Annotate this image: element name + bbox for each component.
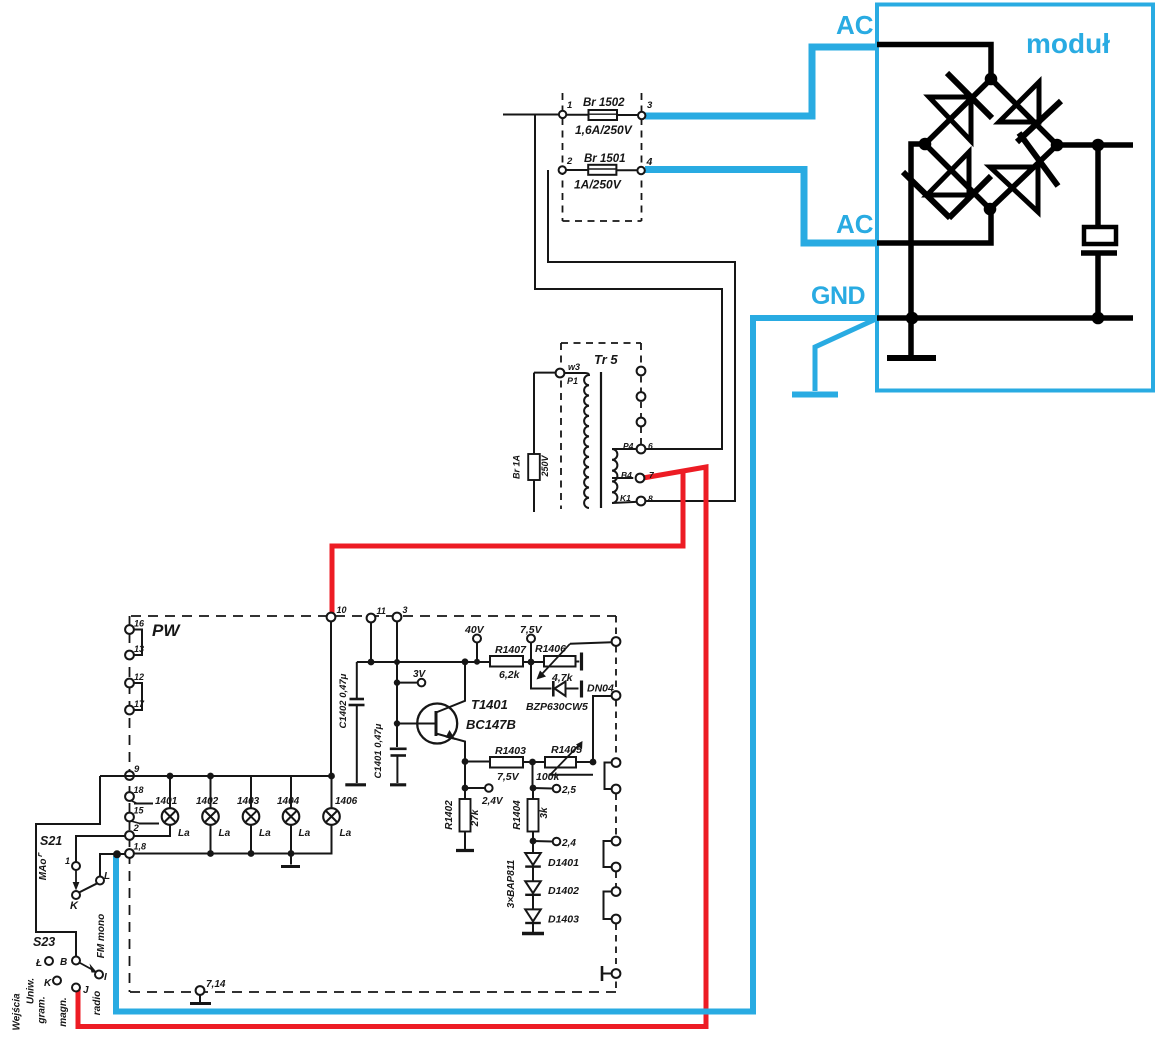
- svg-text:100k: 100k: [536, 771, 561, 783]
- svg-text:2: 2: [566, 156, 573, 167]
- svg-text:Wejścia: Wejścia: [12, 993, 23, 1030]
- svg-text:3k: 3k: [539, 807, 550, 819]
- svg-text:D1403: D1403: [548, 913, 579, 925]
- svg-text:1402: 1402: [196, 796, 219, 807]
- svg-text:7,5V: 7,5V: [497, 771, 520, 783]
- svg-text:FM mono: FM mono: [96, 914, 107, 958]
- svg-text:15: 15: [134, 806, 145, 816]
- svg-text:D1402: D1402: [548, 885, 579, 897]
- svg-text:K1: K1: [620, 493, 631, 503]
- svg-text:C1402 0,47μ: C1402 0,47μ: [338, 673, 349, 728]
- svg-text:w3: w3: [568, 362, 580, 372]
- svg-text:R1404: R1404: [512, 800, 523, 830]
- svg-text:Uniw.: Uniw.: [26, 978, 37, 1004]
- svg-text:Br 1502: Br 1502: [583, 97, 625, 109]
- svg-text:7,5V: 7,5V: [520, 624, 543, 636]
- svg-text:Br 1A: Br 1A: [512, 455, 522, 479]
- svg-text:T1401: T1401: [471, 697, 508, 712]
- svg-text:La: La: [219, 828, 231, 839]
- svg-text:1,6A/250V: 1,6A/250V: [575, 123, 633, 137]
- svg-text:2,5: 2,5: [561, 785, 576, 796]
- svg-text:B: B: [60, 957, 67, 968]
- svg-text:I: I: [104, 972, 107, 983]
- svg-text:La: La: [259, 828, 271, 839]
- svg-text:AC: AC: [836, 10, 874, 40]
- svg-text:3: 3: [403, 605, 408, 615]
- svg-text:L: L: [104, 871, 110, 882]
- svg-text:10: 10: [337, 605, 347, 615]
- svg-text:moduł: moduł: [1026, 28, 1110, 59]
- svg-text:GND: GND: [811, 282, 865, 310]
- svg-text:2: 2: [133, 823, 140, 834]
- svg-text:6,2k: 6,2k: [499, 669, 521, 681]
- svg-text:La: La: [340, 828, 352, 839]
- svg-text:R1403: R1403: [495, 745, 526, 757]
- svg-text:3V: 3V: [413, 669, 427, 680]
- svg-text:3: 3: [647, 100, 653, 111]
- svg-text:DN04: DN04: [587, 683, 614, 695]
- svg-text:12: 12: [134, 672, 144, 682]
- svg-text:16: 16: [134, 619, 145, 629]
- svg-text:4: 4: [646, 156, 653, 168]
- svg-text:R1407: R1407: [495, 644, 527, 656]
- svg-text:PW: PW: [152, 621, 181, 640]
- svg-text:P1: P1: [567, 376, 578, 386]
- svg-text:BC147B: BC147B: [466, 717, 516, 732]
- svg-text:8: 8: [648, 494, 653, 504]
- svg-text:2,4: 2,4: [561, 838, 576, 849]
- svg-text:La: La: [178, 828, 190, 839]
- svg-text:27k: 27k: [470, 809, 481, 827]
- svg-text:7,14: 7,14: [206, 979, 226, 990]
- svg-text:S23: S23: [33, 935, 55, 949]
- svg-text:17: 17: [134, 699, 145, 709]
- svg-text:Tr 5: Tr 5: [594, 352, 618, 367]
- svg-text:P4: P4: [623, 441, 634, 451]
- svg-text:D1401: D1401: [548, 857, 579, 869]
- svg-text:Br 1501: Br 1501: [584, 153, 626, 165]
- svg-text:1404: 1404: [277, 796, 300, 807]
- svg-text:Ł: Ł: [35, 958, 42, 969]
- svg-text:1403: 1403: [237, 796, 260, 807]
- svg-text:S21: S21: [40, 834, 62, 848]
- svg-text:AC: AC: [836, 209, 874, 239]
- svg-text:2,4V: 2,4V: [481, 796, 504, 807]
- svg-text:11: 11: [377, 606, 386, 616]
- svg-text:1406: 1406: [335, 796, 358, 807]
- svg-text:B4: B4: [621, 470, 632, 480]
- svg-text:1,8: 1,8: [134, 842, 147, 852]
- svg-text:radio: radio: [92, 991, 103, 1015]
- svg-text:J: J: [83, 985, 89, 996]
- svg-text:1: 1: [65, 856, 70, 866]
- svg-text:BZP630CW5: BZP630CW5: [526, 701, 588, 713]
- svg-text:9: 9: [134, 764, 140, 775]
- svg-text:C1401 0,47μ: C1401 0,47μ: [373, 723, 384, 778]
- svg-text:La: La: [299, 828, 311, 839]
- svg-text:K: K: [70, 900, 79, 912]
- svg-text:250V: 250V: [540, 454, 550, 477]
- svg-text:18: 18: [134, 785, 144, 795]
- svg-text:3×BAP811: 3×BAP811: [506, 859, 517, 908]
- svg-text:MAo⌜: MAo⌜: [38, 852, 49, 881]
- svg-text:gram.: gram.: [37, 996, 48, 1024]
- svg-text:40V: 40V: [464, 624, 485, 636]
- svg-text:K: K: [44, 978, 52, 989]
- svg-text:magn.: magn.: [58, 997, 69, 1026]
- svg-text:1: 1: [567, 100, 572, 111]
- svg-text:1401: 1401: [155, 796, 178, 807]
- svg-text:1A/250V: 1A/250V: [574, 178, 622, 192]
- svg-text:6: 6: [648, 441, 653, 451]
- svg-text:R1402: R1402: [444, 800, 455, 830]
